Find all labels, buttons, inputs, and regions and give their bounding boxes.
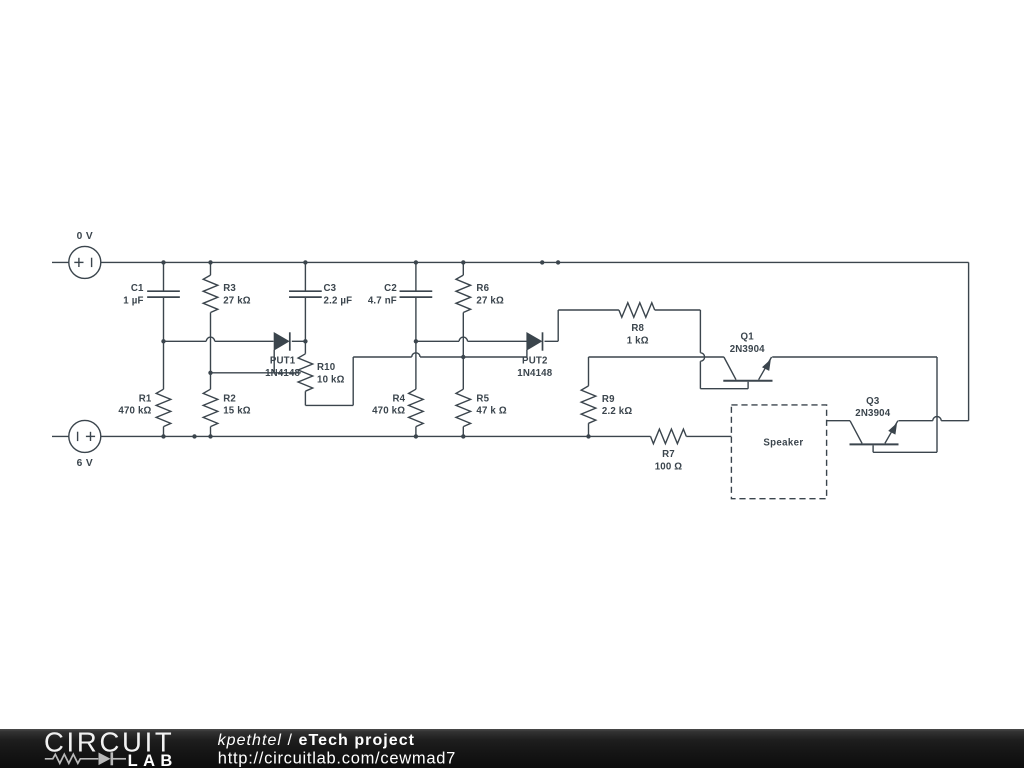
svg-text:47 k Ω: 47 k Ω: [476, 406, 506, 417]
svg-text:Q1: Q1: [741, 332, 755, 343]
svg-text:kpethtel / eTech project: kpethtel / eTech project: [218, 732, 415, 749]
svg-text:10 kΩ: 10 kΩ: [317, 375, 345, 386]
svg-text:27 kΩ: 27 kΩ: [476, 295, 504, 306]
svg-text:4.7 nF: 4.7 nF: [368, 295, 397, 306]
svg-text:http://circuitlab.com/cewmad7: http://circuitlab.com/cewmad7: [218, 750, 456, 768]
svg-text:Speaker: Speaker: [763, 437, 803, 448]
svg-text:R5: R5: [476, 394, 489, 405]
svg-text:470 kΩ: 470 kΩ: [372, 406, 405, 417]
svg-text:LAB: LAB: [128, 752, 178, 768]
svg-text:C2: C2: [384, 283, 397, 294]
svg-text:R2: R2: [223, 394, 236, 405]
svg-text:470 kΩ: 470 kΩ: [118, 406, 151, 417]
svg-text:1 kΩ: 1 kΩ: [627, 335, 649, 346]
svg-text:C3: C3: [324, 283, 337, 294]
svg-text:1N4148: 1N4148: [517, 368, 552, 379]
svg-text:2N3904: 2N3904: [730, 344, 765, 355]
svg-text:6 V: 6 V: [77, 458, 94, 469]
svg-text:R6: R6: [476, 283, 489, 294]
svg-text:R9: R9: [602, 394, 615, 405]
svg-text:R4: R4: [392, 394, 405, 405]
svg-text:2.2 µF: 2.2 µF: [324, 295, 353, 306]
svg-text:Q3: Q3: [866, 396, 880, 407]
svg-text:100 Ω: 100 Ω: [655, 461, 683, 472]
svg-text:2N3904: 2N3904: [855, 408, 890, 419]
svg-text:R7: R7: [662, 449, 675, 460]
svg-text:0 V: 0 V: [77, 231, 94, 242]
svg-text:PUT1: PUT1: [270, 356, 296, 367]
svg-text:R8: R8: [631, 323, 644, 334]
svg-text:1N4148: 1N4148: [265, 368, 300, 379]
svg-text:15 kΩ: 15 kΩ: [223, 406, 251, 417]
svg-text:27 kΩ: 27 kΩ: [223, 295, 251, 306]
svg-text:R10: R10: [317, 362, 335, 373]
svg-text:C1: C1: [131, 283, 144, 294]
svg-text:PUT2: PUT2: [522, 356, 547, 367]
svg-text:2.2 kΩ: 2.2 kΩ: [602, 406, 632, 417]
svg-text:R1: R1: [139, 394, 152, 405]
svg-text:R3: R3: [223, 283, 236, 294]
svg-text:1 µF: 1 µF: [123, 295, 143, 306]
